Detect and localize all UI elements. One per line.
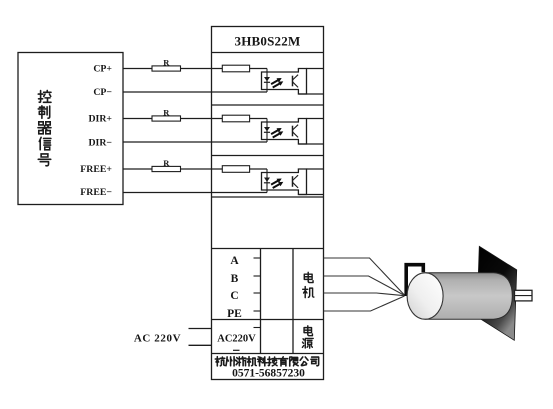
svg-text:0571-56857230: 0571-56857230	[232, 367, 305, 379]
driver section separator 1	[212, 104, 324, 106]
svg-text:AC 220V: AC 220V	[134, 333, 181, 345]
optocoupler U1 phototransistor	[293, 75, 299, 88]
svg-text:FREE−: FREE−	[80, 187, 112, 198]
wire DIR+ from source box to opto U2 anode	[123, 118, 267, 120]
wire motor PE	[324, 296, 405, 311]
svg-text:AC220V: AC220V	[217, 333, 256, 344]
company name 杭州浙机科技有限公司	[215, 357, 318, 366]
motor flange plate	[477, 246, 517, 340]
motor mounting bracket	[406, 265, 423, 296]
optocoupler U3 light arrows	[271, 179, 283, 189]
wire U1 collector to driver bus	[307, 68, 324, 70]
svg-text:C: C	[230, 290, 238, 302]
svg-text:B: B	[231, 273, 239, 285]
motor end cap ellipse	[407, 273, 443, 319]
optocoupler U2 light arrows	[271, 128, 283, 138]
power section separator	[212, 319, 324, 321]
svg-text:R: R	[163, 58, 170, 68]
resistor R (external, CP+ line)	[152, 66, 181, 71]
wire AC line 2	[189, 344, 212, 346]
wire U2 collector to driver bus	[307, 118, 324, 120]
terminal B tick	[254, 275, 261, 277]
optocoupler U1 LED	[264, 69, 270, 93]
terminal C tick	[254, 292, 261, 294]
AC220V underline mark	[233, 349, 240, 351]
optocoupler U2 phototransistor	[293, 125, 299, 138]
terminal column divider	[260, 249, 262, 354]
svg-text:CP−: CP−	[93, 87, 112, 98]
wire motor phase C	[324, 293, 405, 296]
wire CP+ from source box to opto U1 anode	[123, 68, 267, 70]
svg-text:PE: PE	[227, 308, 242, 320]
label 电机 (motor)	[303, 272, 314, 297]
wire motor phase B	[324, 276, 405, 295]
wire AC line 1	[189, 328, 212, 330]
wire DIR- from source box to opto U2 cathode	[123, 141, 267, 143]
controller signal source box 控制器信号	[18, 53, 123, 205]
optocoupler U3 LED	[264, 169, 270, 193]
svg-text:CP+: CP+	[93, 64, 112, 75]
vertical label 控制器信号 (controller signal)	[38, 90, 51, 165]
wire CP- from source box to opto U1 cathode	[123, 91, 267, 93]
optocoupler U2 body	[262, 119, 307, 145]
AC terminal tick	[254, 327, 261, 329]
motor shaft	[515, 290, 533, 301]
optocoupler U3 phototransistor	[293, 175, 299, 188]
driver section separator 2	[212, 155, 324, 157]
svg-text:R: R	[163, 108, 170, 118]
driver terminal section separator	[212, 248, 324, 250]
svg-text:DIR+: DIR+	[88, 114, 112, 125]
svg-text:DIR−: DIR−	[88, 138, 112, 149]
svg-text:R: R	[163, 158, 170, 168]
wire FREE- from source box to opto U3 cathode	[123, 192, 267, 194]
optocoupler U2 LED	[264, 119, 270, 143]
svg-text:FREE+: FREE+	[80, 164, 112, 175]
optocoupler U3 body	[262, 169, 307, 195]
resistor R1 (internal, driver input)	[222, 65, 249, 72]
wire U3 emitter to driver bus	[299, 194, 324, 196]
svg-text:3HB0S22M: 3HB0S22M	[235, 34, 301, 49]
motor body cylinder	[425, 273, 512, 319]
wire U1 emitter to driver bus	[299, 93, 324, 95]
driver box 3HB0S22M outline	[212, 27, 324, 380]
wire U3 collector to driver bus	[307, 168, 324, 170]
optocoupler U1 body	[262, 69, 307, 95]
wire motor phase A	[324, 258, 405, 295]
resistor R3 (internal, driver input)	[222, 166, 249, 173]
svg-text:A: A	[230, 255, 239, 267]
wire FREE+ from source box to opto U3 anode	[123, 168, 267, 170]
wire U2 emitter to driver bus	[299, 143, 324, 145]
driver title separator	[212, 52, 324, 54]
label 电源 (power)	[302, 326, 313, 348]
resistor R (external, FREE+ line)	[152, 166, 181, 171]
company row separator	[212, 353, 324, 355]
resistor R (external, DIR+ line)	[152, 116, 181, 121]
terminal A tick	[254, 257, 261, 259]
optocoupler U1 light arrows	[271, 78, 283, 88]
motor/power label column divider	[292, 249, 294, 354]
terminal PE tick	[254, 310, 261, 312]
driver section separator 3	[212, 196, 324, 198]
resistor R2 (internal, driver input)	[222, 115, 249, 122]
